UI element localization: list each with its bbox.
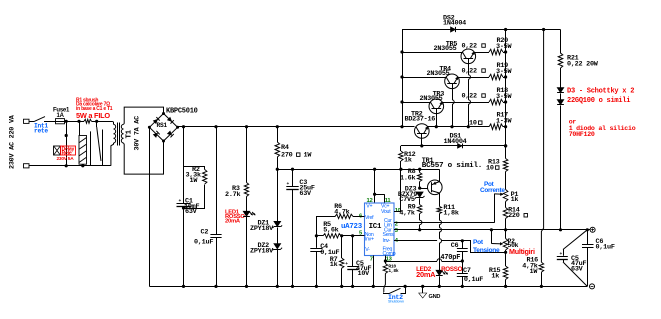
svg-text:10: 10 [469,120,477,128]
svg-text:1W: 1W [190,177,199,185]
svg-text:1,8k: 1,8k [388,268,399,274]
svg-text:0,22: 0,22 [462,93,477,101]
svg-text:RS1: RS1 [157,122,168,129]
svg-text:KBPC5010: KBPC5010 [166,108,198,116]
svg-text:1N4004: 1N4004 [444,138,467,146]
svg-text:2.7k: 2.7k [225,191,240,199]
svg-text:0,22: 0,22 [462,68,477,76]
svg-text:Vref: Vref [365,215,374,221]
svg-text:20mA: 20mA [416,270,436,279]
svg-text:D3 - Schottky x 2: D3 - Schottky x 2 [567,87,634,95]
svg-text:BD237-16: BD237-16 [405,116,436,124]
svg-text:1,8k: 1,8k [443,209,458,217]
svg-text:1k: 1k [330,261,338,269]
svg-text:10: 10 [486,165,494,173]
svg-text:63V: 63V [299,190,312,198]
svg-text:0,1uF: 0,1uF [464,276,483,284]
svg-text:IC1: IC1 [369,223,382,231]
svg-text:0,1uF: 0,1uF [596,244,615,252]
svg-text:C2: C2 [201,229,209,237]
svg-text:4,7k: 4,7k [334,208,349,216]
svg-text:1k: 1k [511,196,519,204]
svg-text:R4: R4 [281,144,289,152]
svg-text:rete: rete [34,127,48,134]
svg-text:Shutdown: Shutdown [388,300,405,304]
svg-text:1-3W: 1-3W [496,118,512,126]
svg-text:1k: 1k [404,156,412,164]
svg-text:70HF120: 70HF120 [569,131,595,138]
svg-text:22GQ100 o simili: 22GQ100 o simili [567,97,630,105]
svg-text:1W: 1W [304,152,313,160]
svg-text:ZPY18V: ZPY18V [250,225,274,233]
svg-text:7: 7 [370,257,373,263]
svg-text:230V AC 220 VA: 230V AC 220 VA [9,114,17,169]
svg-text:C6: C6 [451,242,459,250]
svg-text:Vout: Vout [381,209,391,215]
svg-text:3-5W: 3-5W [496,43,512,51]
svg-text:Sens: Sens [383,232,394,238]
svg-text:BC557 o simil.: BC557 o simil. [422,162,482,170]
svg-text:0,1uF: 0,1uF [194,239,213,247]
svg-text:2N3055: 2N3055 [434,45,457,53]
svg-text:Multigiri: Multigiri [509,247,535,256]
svg-text:3-5W: 3-5W [496,93,512,101]
svg-text:5,6k: 5,6k [323,227,338,235]
svg-text:ZPY18V: ZPY18V [250,247,274,255]
svg-text:20mA: 20mA [225,219,241,225]
svg-text:1N4004: 1N4004 [443,20,466,28]
svg-text:GND: GND [429,294,441,300]
svg-text:ROSSO: ROSSO [441,266,463,273]
svg-text:Inv+: Inv+ [365,236,374,242]
svg-text:Pot: Pot [473,239,484,246]
svg-text:0,22: 0,22 [462,43,477,51]
svg-text:220: 220 [508,212,520,220]
svg-text:2N3055: 2N3055 [420,95,443,103]
svg-text:C7: C7 [463,267,471,275]
svg-text:0,22 20W: 0,22 20W [567,60,599,68]
svg-text:Rele: Rele [62,151,72,157]
svg-text:V-: V- [365,247,370,253]
svg-text:3-5W: 3-5W [496,68,512,76]
svg-text:270: 270 [281,152,293,160]
svg-text:T1: T1 [126,129,134,138]
svg-text:10V: 10V [358,270,371,278]
svg-text:2N3055: 2N3055 [427,70,450,78]
svg-text:1W: 1W [530,268,539,276]
svg-text:470pF: 470pF [440,254,460,262]
svg-text:63V: 63V [185,208,198,216]
svg-text:1k: 1k [491,272,499,280]
svg-text:230V 5A: 230V 5A [57,156,75,162]
svg-text:5W a FILO: 5W a FILO [76,111,110,120]
svg-text:1.6k: 1.6k [400,174,415,182]
svg-text:Corrente: Corrente [480,187,505,194]
svg-text:63V: 63V [571,265,584,273]
svg-text:V+: V+ [366,204,372,210]
svg-text:4,7k: 4,7k [399,210,414,218]
svg-text:30V 7A AC: 30V 7A AC [134,116,142,151]
svg-text:Inv-: Inv- [383,238,391,244]
